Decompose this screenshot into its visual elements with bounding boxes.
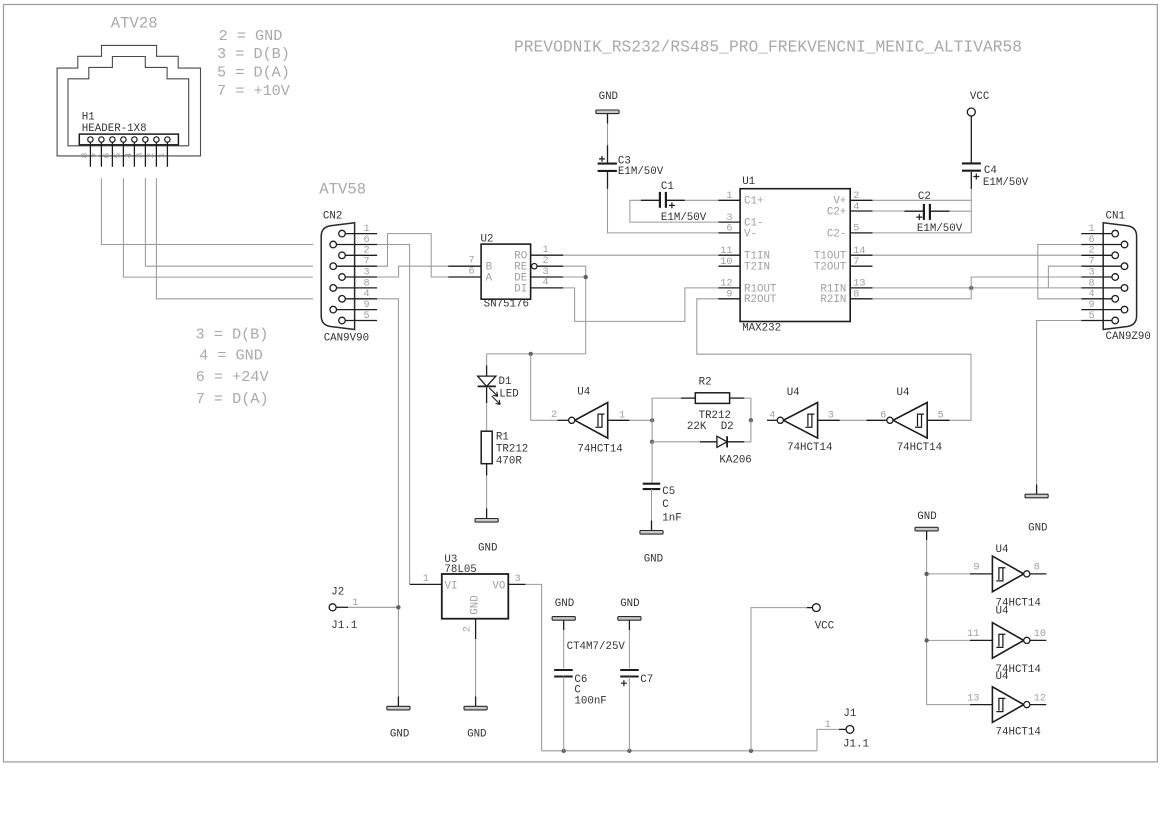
svg-text:C2: C2: [918, 191, 931, 203]
svg-text:7: 7: [853, 257, 859, 268]
svg-text:ATV58: ATV58: [319, 180, 366, 198]
wire H1 pin5 to CN2 pin3: [123, 178, 313, 277]
inverter U4a: [575, 403, 608, 439]
svg-text:CAN9Z90: CAN9Z90: [1106, 331, 1151, 343]
wire CN2 pin7 to U2 A (jog up-over): [377, 234, 448, 277]
wire node up to R2: [652, 398, 681, 420]
U3 pin 3 VO: [508, 583, 525, 585]
bottom rail: [542, 750, 817, 752]
svg-text:4 = GND: 4 = GND: [199, 346, 263, 364]
svg-text:9: 9: [363, 300, 369, 311]
header H1 body: [79, 134, 178, 145]
wire V+ to C4: [873, 199, 972, 201]
wire U3 VO down to rail: [526, 584, 542, 750]
svg-text:E1M/50V: E1M/50V: [618, 166, 664, 178]
wire U2 RE/DE down to LED net: [563, 266, 585, 354]
U1 pin 8 R2IN: [850, 298, 872, 300]
capacitor C7: [620, 669, 639, 671]
capacitor C5: [651, 442, 653, 483]
svg-text:3: 3: [726, 213, 732, 224]
U1 pin 11 T1IN: [718, 254, 740, 256]
svg-text:10: 10: [720, 257, 732, 268]
U2 pin 4 DI stub: [531, 287, 564, 289]
svg-text:12: 12: [720, 279, 732, 290]
svg-text:ATV28: ATV28: [111, 14, 158, 32]
wire U3 pin2 to ground: [475, 639, 477, 696]
svg-text:T2OUT: T2OUT: [814, 262, 847, 274]
svg-text:E1M/50V: E1M/50V: [917, 223, 963, 235]
svg-text:C7: C7: [640, 674, 653, 686]
header H1 pin stub 8: [89, 142, 91, 167]
svg-text:MAX232: MAX232: [742, 323, 781, 335]
svg-text:U4: U4: [577, 386, 590, 398]
wire R1 to ground: [486, 476, 488, 509]
svg-text:C2+: C2+: [827, 206, 846, 218]
svg-text:GND: GND: [917, 511, 936, 523]
svg-text:U4: U4: [996, 671, 1009, 683]
U3 pin 1 VI: [410, 583, 442, 585]
wire CN2 pin3 to U2 B: [377, 266, 448, 277]
wire LED net horizontal: [487, 354, 586, 366]
header H1 pin stub 1: [166, 142, 168, 167]
svg-text:D2: D2: [721, 421, 734, 433]
connector CN2 pin 1: [339, 230, 346, 237]
svg-text:3 = D(B): 3 = D(B): [196, 325, 269, 343]
svg-text:HEADER-1X8: HEADER-1X8: [82, 123, 147, 135]
connector CN2 body: [321, 223, 354, 330]
svg-text:3: 3: [1088, 267, 1094, 278]
U1 pin 2 V+: [850, 199, 872, 201]
connector CN2 pin 3: [339, 274, 346, 281]
svg-text:9: 9: [1088, 300, 1094, 311]
capacitor C4: [970, 116, 972, 163]
svg-text:GND: GND: [1028, 522, 1047, 534]
connector CN1 pin 5: [1112, 317, 1119, 324]
connector CN1 body: [1103, 223, 1136, 330]
connector CN2 pin 7: [330, 263, 337, 270]
svg-text:100nF: 100nF: [574, 695, 606, 707]
svg-text:74HCT14: 74HCT14: [897, 442, 942, 454]
capacitor C6: [554, 669, 573, 671]
resistor R1: [481, 431, 492, 464]
wire CN1 pin6 to pin4 loopback: [1038, 245, 1082, 299]
svg-text:3: 3: [828, 411, 834, 422]
inverter U4b: [783, 403, 817, 439]
svg-text:9: 9: [973, 563, 979, 574]
junction R1IN net: [969, 286, 973, 290]
gate U4a output pin1: [608, 419, 630, 421]
svg-text:5: 5: [112, 152, 123, 158]
svg-text:3: 3: [363, 267, 369, 278]
wire R1IN to CN1 pin8: [873, 287, 1082, 289]
svg-text:J2: J2: [331, 586, 344, 598]
svg-text:U4: U4: [996, 544, 1009, 556]
svg-text:5: 5: [363, 311, 369, 322]
svg-text:D1: D1: [499, 376, 512, 388]
header H1 pin circle 1: [165, 137, 170, 142]
U2 pin 7 B stub: [448, 265, 481, 267]
wire gate2 to gate3: [840, 419, 867, 421]
connector CN1 pin 2: [1112, 252, 1119, 259]
svg-text:GND: GND: [467, 729, 486, 741]
svg-text:GND: GND: [644, 553, 663, 565]
svg-text:6: 6: [468, 266, 474, 277]
U1 pin 9 R2OUT: [718, 298, 740, 300]
wire R2IN to junction: [873, 288, 972, 299]
wire U2 RO to U1 T1IN: [563, 254, 718, 256]
wire branch to CN1 pin7: [1048, 266, 1081, 288]
svg-text:CN1: CN1: [1106, 211, 1125, 223]
wire input stub pin2: [558, 419, 569, 421]
connector CN1 pin 8: [1121, 285, 1128, 292]
U1 MAX232 body: [740, 189, 850, 322]
svg-text:74HCT14: 74HCT14: [787, 442, 832, 454]
ground symbol C5: [651, 521, 653, 531]
header H1 pin stub 3: [144, 142, 146, 167]
connector CN2 pin 6: [330, 241, 337, 248]
svg-text:1: 1: [156, 152, 167, 158]
wire C1 left loop to U1 C1-: [630, 200, 719, 222]
capacitor C3: [607, 145, 609, 163]
svg-text:VCC: VCC: [815, 620, 835, 632]
svg-text:74HCT14: 74HCT14: [577, 443, 622, 455]
svg-text:CT4M7/25V: CT4M7/25V: [567, 641, 626, 653]
svg-text:1: 1: [619, 410, 625, 421]
svg-text:4: 4: [769, 411, 775, 422]
svg-text:TR212: TR212: [496, 444, 528, 456]
header H1 pin stub 2: [155, 142, 157, 167]
wire T1OUT to CN1 pin2: [873, 254, 1082, 256]
svg-text:6: 6: [363, 235, 369, 246]
RJ45 jack outline inner: [68, 57, 189, 146]
ground symbol CN1 pin5: [1036, 485, 1038, 495]
svg-text:2: 2: [551, 410, 557, 421]
svg-text:8: 8: [1088, 278, 1094, 289]
svg-text:5 = D(A): 5 = D(A): [217, 64, 290, 82]
wire R2 right down to node2: [744, 398, 751, 420]
svg-text:5: 5: [938, 411, 944, 422]
wire J1 to rail: [817, 729, 839, 750]
header H1 pin stub 5: [122, 142, 124, 167]
svg-text:3: 3: [543, 267, 549, 278]
U3 78L05 body: [442, 574, 509, 619]
svg-text:4: 4: [543, 278, 549, 289]
U1 pin 7 T2OUT: [850, 265, 872, 267]
svg-text:2: 2: [145, 152, 156, 158]
connector CN1 pin 9: [1121, 306, 1128, 313]
ground symbol U3: [475, 697, 477, 707]
svg-text:1: 1: [543, 245, 549, 256]
svg-text:10: 10: [1034, 629, 1046, 640]
U1 pin 14 T1OUT: [850, 254, 872, 256]
svg-text:V-: V-: [744, 228, 757, 240]
svg-text:GND: GND: [620, 598, 639, 610]
U1 pin 4 C2+: [850, 210, 872, 212]
svg-text:11: 11: [967, 629, 979, 640]
LED arrows: [489, 388, 498, 397]
wire C1 right to U1 C1+: [685, 199, 719, 201]
svg-text:C: C: [662, 499, 669, 511]
header H1 pin circle 8: [88, 137, 93, 142]
svg-text:4: 4: [123, 152, 134, 158]
connector CN2 pin 9: [330, 306, 337, 313]
svg-text:13: 13: [967, 693, 979, 704]
svg-text:2: 2: [1088, 246, 1094, 257]
svg-text:LED: LED: [499, 388, 518, 400]
wire H1 pin3 to CN2 pin7: [145, 178, 313, 266]
svg-text:GND: GND: [599, 91, 618, 103]
svg-text:14: 14: [853, 246, 865, 257]
svg-text:6 = +24V: 6 = +24V: [196, 368, 270, 386]
svg-text:J1.1: J1.1: [843, 739, 869, 751]
ground symbol R1: [486, 508, 488, 518]
header H1 pin circle 2: [154, 137, 159, 142]
inverter U4 pins 13-12: [970, 704, 993, 706]
wire junction up to CN1 pin3: [971, 277, 1081, 288]
U1 pin 1 C1+: [718, 199, 740, 201]
svg-text:C4: C4: [984, 165, 997, 177]
svg-text:VI: VI: [445, 580, 458, 592]
wire VCC to rail: [751, 608, 807, 751]
svg-text:C5: C5: [662, 486, 675, 498]
svg-text:R1: R1: [496, 432, 509, 444]
U2 pin 3 DE stub: [531, 276, 564, 278]
svg-text:6: 6: [101, 152, 112, 158]
junction RE/DE: [584, 275, 588, 279]
svg-text:7: 7: [468, 256, 474, 267]
svg-text:1nF: 1nF: [662, 513, 681, 525]
connector CN1 pin 3: [1112, 274, 1119, 281]
U1 pin 5 C2-: [850, 232, 872, 234]
wire U2 DI to U1 R1OUT: [563, 288, 718, 322]
svg-text:22K: 22K: [687, 421, 707, 433]
inverter U4c: [893, 403, 927, 439]
svg-text:7: 7: [90, 153, 101, 159]
svg-text:C1: C1: [661, 181, 674, 193]
svg-text:1: 1: [726, 191, 732, 202]
svg-text:2: 2: [363, 246, 369, 257]
wire gnd to C6: [563, 630, 565, 669]
svg-text:VO: VO: [492, 580, 505, 592]
wire CN1 pin5 to ground: [1037, 321, 1082, 485]
svg-text:U4: U4: [897, 387, 910, 399]
svg-text:GND: GND: [478, 543, 497, 555]
header H1 pin circle 7: [99, 137, 104, 142]
header H1 pin circle 3: [143, 137, 148, 142]
header H1 pin circle 4: [132, 137, 137, 142]
wire H1 pin2 to CN2 pin4: [156, 178, 313, 299]
connector CN1 pin 1: [1112, 230, 1119, 237]
svg-text:8: 8: [1034, 563, 1040, 574]
svg-text:GND: GND: [470, 595, 482, 614]
svg-text:4: 4: [363, 289, 369, 300]
header H1 pin stub 7: [100, 142, 102, 167]
svg-text:11: 11: [720, 246, 732, 257]
svg-text:6: 6: [880, 411, 886, 422]
connector CN2 pin 5: [339, 317, 346, 324]
svg-text:1: 1: [1088, 224, 1094, 235]
inverter U4 pins 9-8: [970, 573, 993, 575]
svg-text:U1: U1: [742, 176, 755, 188]
svg-text:KA206: KA206: [719, 454, 751, 466]
svg-text:GND: GND: [390, 729, 409, 741]
svg-text:R2IN: R2IN: [820, 294, 846, 306]
svg-text:7 = D(A): 7 = D(A): [196, 390, 269, 408]
svg-text:13: 13: [853, 279, 865, 290]
U1 pin 10 T2IN: [718, 265, 740, 267]
svg-text:8: 8: [853, 290, 859, 301]
connector CN2 pin 2: [339, 252, 346, 259]
svg-text:J1: J1: [843, 708, 856, 720]
inverter U4 pins 11-10: [970, 639, 993, 641]
connector CN1 pin 4: [1112, 296, 1119, 303]
connector CN1 pin 7: [1121, 263, 1128, 270]
svg-text:U4: U4: [996, 605, 1009, 617]
ground symbol CN2 pin4 net: [397, 697, 399, 707]
svg-text:3: 3: [515, 574, 521, 585]
svg-text:U4: U4: [787, 387, 800, 399]
svg-text:R2: R2: [699, 377, 712, 389]
svg-text:R2OUT: R2OUT: [744, 294, 777, 306]
U1 pin 12 R1OUT: [718, 287, 740, 289]
svg-text:4: 4: [853, 202, 859, 213]
svg-text:PREVODNIK_RS232/RS485_PRO_FREK: PREVODNIK_RS232/RS485_PRO_FREKVENCNI_MEN…: [514, 37, 1022, 56]
svg-text:2 = GND: 2 = GND: [219, 27, 283, 45]
svg-text:1: 1: [423, 574, 429, 585]
connector CN2 pin 8: [330, 285, 337, 292]
wire CN2 pin4 (GND) down: [377, 299, 398, 697]
wire GND to C3: [607, 124, 609, 146]
wire gate1 output up: [531, 354, 558, 420]
svg-text:8: 8: [363, 278, 369, 289]
wire J2 to GND net: [348, 606, 398, 608]
svg-text:J1.1: J1.1: [331, 620, 357, 632]
svg-text:SN75176: SN75176: [484, 299, 529, 311]
svg-text:GND: GND: [555, 598, 574, 610]
U2 SN75176 body: [481, 244, 530, 299]
svg-text:74HCT14: 74HCT14: [996, 726, 1041, 738]
svg-text:2: 2: [463, 626, 474, 632]
svg-text:C2-: C2-: [827, 228, 846, 240]
wire D2 to node2: [744, 420, 751, 442]
wire C4 / C2 loop verticals: [970, 189, 972, 233]
wire U1 R2OUT to gate3 output: [697, 299, 971, 421]
svg-text:CAN9V90: CAN9V90: [324, 332, 369, 344]
U3 pin 2: [475, 619, 477, 640]
RJ45 jack outline outer: [57, 45, 200, 155]
wire gnd down gates input: [927, 540, 970, 705]
U2 pin 1 RO stub: [531, 254, 564, 256]
svg-text:2: 2: [543, 256, 549, 267]
wire U2 DE to junction: [563, 276, 585, 278]
wire H1 pin7 to CN2 pin6: [101, 178, 313, 244]
svg-text:470R: 470R: [496, 455, 522, 467]
svg-text:T2IN: T2IN: [744, 262, 770, 274]
diode D1 LED: [486, 366, 488, 377]
connector CN2 pin 4: [339, 296, 346, 303]
U2 pin 6 A stub: [448, 276, 481, 278]
wire C5 to ground: [651, 489, 653, 520]
header H1 pin stub 6: [111, 142, 113, 167]
svg-text:DI: DI: [514, 283, 527, 295]
svg-text:CN2: CN2: [323, 211, 342, 223]
svg-text:7: 7: [1088, 257, 1094, 268]
svg-text:9: 9: [726, 290, 732, 301]
svg-text:3 = D(B): 3 = D(B): [217, 45, 290, 63]
svg-text:A: A: [486, 272, 493, 284]
U1 pin 3 C1-: [718, 221, 740, 223]
wire C3 to U1 V-: [608, 189, 719, 233]
svg-text:VCC: VCC: [970, 91, 990, 103]
svg-text:7: 7: [363, 257, 369, 268]
svg-text:E1M/50V: E1M/50V: [983, 177, 1029, 189]
header H1 pin circle 5: [121, 137, 126, 142]
svg-text:3: 3: [134, 152, 145, 158]
svg-text:5: 5: [853, 224, 859, 235]
wire D1 to R1: [486, 403, 488, 431]
svg-text:2: 2: [853, 191, 859, 202]
junction gate1 output: [529, 352, 533, 356]
wire D2 branch: [652, 441, 700, 443]
U1 pin 6 V-: [718, 232, 740, 234]
wire pin1 to oscillator node: [629, 419, 652, 421]
svg-text:8: 8: [79, 152, 90, 158]
U2 pin 2 RE stub + bubble: [532, 264, 537, 269]
svg-text:6: 6: [1088, 235, 1094, 246]
header H1 pin circle 6: [110, 137, 115, 142]
header H1 pin stub 4: [133, 142, 135, 167]
svg-text:1: 1: [363, 224, 369, 235]
wire node down to D2/C5: [651, 420, 653, 442]
wire CN2 pin6 down to U3 VI: [377, 245, 410, 585]
connector CN1 pin 6: [1121, 241, 1128, 248]
U1 pin 13 R1IN: [850, 287, 872, 289]
wire C2- loop bottom: [873, 232, 972, 234]
svg-text:12: 12: [1034, 693, 1046, 704]
svg-text:5: 5: [1088, 311, 1094, 322]
svg-text:7 = +10V: 7 = +10V: [217, 82, 291, 100]
svg-text:4: 4: [1088, 289, 1094, 300]
svg-text:6: 6: [726, 224, 732, 235]
svg-text:C1+: C1+: [744, 196, 763, 208]
